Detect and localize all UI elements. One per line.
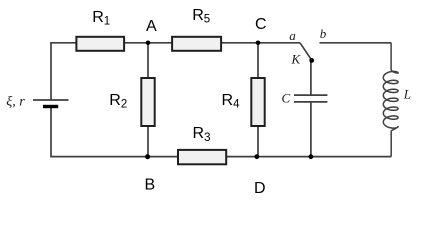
battery cell xi,r long plate xyxy=(33,99,69,101)
wire left vertical top (battery to top-left corner) xyxy=(51,43,76,100)
switch K pivot dot xyxy=(309,58,314,63)
resistor R4 xyxy=(251,78,264,126)
wire switch blade a-K xyxy=(300,43,312,60)
wire left vertical bottom (battery to bottom-left corner) xyxy=(51,107,148,157)
wire K pivot to capacitor xyxy=(310,60,312,95)
node D junction dot xyxy=(254,154,259,159)
svg-text:D: D xyxy=(254,180,266,197)
resistor R5 xyxy=(172,37,221,51)
svg-text:K: K xyxy=(291,52,302,67)
node B junction dot xyxy=(145,154,150,159)
svg-text:C: C xyxy=(282,90,291,105)
svg-text:B: B xyxy=(145,177,156,194)
resistor R3 xyxy=(178,150,226,164)
capacitor C top plate xyxy=(294,94,327,96)
wire top A segment (R1 to node A to R5) xyxy=(124,42,172,44)
resistor R1 xyxy=(76,37,124,51)
inductor L coil xyxy=(383,43,398,157)
resistor R2 xyxy=(141,78,154,126)
svg-text:ξ, r: ξ, r xyxy=(6,95,25,110)
wire R4 down to node D xyxy=(257,126,259,157)
wire node A down to R2 xyxy=(147,43,149,78)
wire R2 down to node B xyxy=(147,126,149,157)
wire contact b to right corner and down to coil xyxy=(320,42,392,44)
node C junction dot xyxy=(256,41,261,46)
svg-text:a: a xyxy=(289,28,296,43)
wire R3 to node D xyxy=(226,156,257,158)
wire coil bottom to bottom-right corner xyxy=(311,156,391,158)
capacitor C bottom plate xyxy=(294,101,327,103)
wire node D to cap junction xyxy=(257,156,311,158)
wire bottom B to R3 xyxy=(148,156,178,158)
battery cell xi,r short thick plate xyxy=(43,105,58,108)
svg-text:A: A xyxy=(146,18,157,35)
wire node C to contact a xyxy=(258,42,300,44)
capacitor branch bottom junction dot xyxy=(309,154,314,159)
svg-text:C: C xyxy=(255,16,267,33)
svg-text:L: L xyxy=(403,86,411,101)
node A junction dot xyxy=(146,41,151,46)
svg-text:b: b xyxy=(320,26,327,41)
wire R5 to node C xyxy=(221,42,258,44)
wire capacitor to bottom xyxy=(310,102,312,157)
wire node C down to R4 xyxy=(257,43,259,78)
